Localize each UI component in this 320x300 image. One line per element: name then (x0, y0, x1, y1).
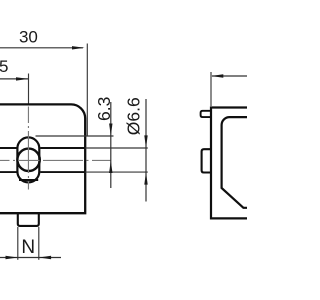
dimension dia 6.6 up arrow (144, 172, 147, 185)
dimension dia 6.6 upper line (145, 99, 147, 202)
front view bottom tab (18, 214, 39, 226)
side view outer contour (211, 108, 247, 219)
slot inner chord (19, 179, 38, 181)
extension line tab left (17, 227, 19, 260)
hole circle (17, 149, 39, 171)
svg-text:15: 15 (0, 57, 8, 76)
extension line slot top (36, 135, 114, 137)
extension line right of 30 (86, 44, 88, 137)
svg-text:30: 30 (19, 28, 38, 47)
side view top nose tab (201, 111, 211, 117)
front view outline (0, 104, 85, 213)
dimension dia 6.6 down arrow (144, 135, 147, 148)
dimension 30 line (0, 47, 83, 49)
svg-text:N: N (21, 237, 35, 258)
dimension 6.3 down arrow (109, 124, 112, 137)
svg-text:6.3: 6.3 (94, 97, 114, 121)
slot obround (17, 137, 39, 182)
extension line hole bottom (85, 171, 148, 173)
horizontal center line (0, 159, 111, 161)
side view top dimension line (212, 75, 247, 77)
groove lower edge right segment (40, 171, 85, 173)
side view inner contour (222, 117, 247, 208)
groove upper edge right segment (40, 147, 85, 149)
dimension 30 arrow (72, 46, 85, 49)
dimension 15 line (0, 78, 28, 80)
extension line hole top (85, 147, 148, 149)
dimension N left arrow (6, 256, 18, 259)
side view top dimension arrow (211, 74, 223, 77)
groove lower edge left segment (0, 171, 17, 173)
extension line tab right (38, 227, 40, 260)
dimension N right arrow (39, 256, 51, 259)
dimension 6.3 up arrow (109, 161, 112, 174)
dimension 6.3 upper line (110, 102, 112, 188)
dimension 15 arrow (16, 77, 29, 80)
side view extension line (210, 72, 212, 106)
side view middle nose tab (202, 149, 211, 172)
vertical center line (27, 107, 29, 190)
svg-text:Ø6.6: Ø6.6 (124, 97, 144, 135)
groove upper edge left segment (0, 147, 17, 149)
extension line hole center (28, 74, 30, 106)
dimension N left line (0, 257, 61, 259)
